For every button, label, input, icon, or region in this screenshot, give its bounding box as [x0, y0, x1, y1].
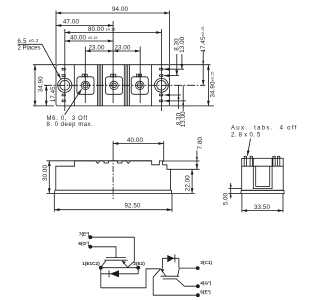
housing rib slots between terminals — [97, 65, 129, 106]
svg-text:7(E²): 7(E²) — [79, 232, 90, 237]
dimension 23.00 right — [113, 44, 140, 51]
dimension 5.00 end view — [222, 183, 241, 205]
svg-text:40.00: 40.00 — [70, 35, 86, 42]
svg-text:4(G¹): 4(G¹) — [200, 281, 211, 286]
svg-text:34.90: 34.90 — [37, 76, 44, 92]
end view body — [242, 158, 284, 190]
IGBT Q1 — [161, 268, 180, 279]
dimension 22.00 elevation — [172, 169, 195, 193]
elevation centerline — [112, 156, 114, 200]
dimension 94.00 — [56, 6, 170, 13]
dimension 13.00 top right — [179, 36, 186, 69]
terminal 7(E2) — [79, 232, 92, 240]
wire node1 loop to emitter of Q1 — [101, 269, 161, 288]
mounting hole left — [58, 78, 72, 92]
svg-text:7.80: 7.80 — [197, 137, 204, 150]
dimension 47.00 — [56, 19, 113, 26]
aux tabs plan view — [62, 68, 163, 101]
svg-text:3(C1): 3(C1) — [200, 260, 212, 265]
dimension 17.45 +-0.15 right — [200, 27, 207, 86]
svg-text:1(E1C2): 1(E1C2) — [82, 261, 100, 266]
svg-text:17.45±0.15: 17.45±0.15 — [200, 27, 207, 53]
dimension 33.50 end view — [242, 193, 283, 212]
svg-text:5(E¹): 5(E¹) — [200, 290, 211, 295]
dimension 80.00 +-0.15 — [65, 26, 162, 33]
svg-text:6(G²): 6(G²) — [78, 241, 89, 246]
svg-text:92.50: 92.50 — [125, 202, 141, 209]
node line 1(E1C2) to 2(E2) — [101, 267, 138, 269]
svg-text:23.00: 23.00 — [89, 44, 105, 51]
dimension 8.30 bottom right — [175, 85, 182, 125]
wire 7(E2) to emitter of Q2 — [90, 237, 134, 267]
svg-text:±0.15: ±0.15 — [106, 27, 115, 31]
terminal 2(E2) — [133, 261, 145, 270]
plan view horizontal centerline — [44, 84, 205, 86]
svg-text:13.00: 13.00 — [180, 111, 187, 127]
dimension 34.90 +-0.15 right — [208, 65, 216, 106]
svg-text:34.90±0.15: 34.90±0.15 — [210, 72, 217, 98]
svg-text:2. 8 x 0. 5: 2. 8 x 0. 5 — [231, 132, 261, 138]
note aux tabs with leader — [231, 125, 298, 155]
svg-text:5.00: 5.00 — [222, 192, 229, 205]
wire collector of Q1 to 3(C1) — [179, 267, 197, 269]
terminal 4(G1) — [196, 281, 212, 289]
plan view module outline — [56, 65, 170, 106]
svg-text:13.00: 13.00 — [179, 36, 186, 52]
svg-text:47.00: 47.00 — [63, 19, 79, 26]
note 6.5 2 places with leader — [18, 38, 61, 79]
dimension 23.00 left — [85, 44, 113, 51]
svg-text:Aux. tabs. 4 off: Aux. tabs. 4 off — [231, 125, 298, 131]
dimension 17.45 left — [46, 85, 57, 106]
svg-text:±0.15: ±0.15 — [88, 36, 97, 40]
end view aux tabs — [244, 156, 280, 166]
svg-text:80.00: 80.00 — [88, 26, 104, 33]
right side tab extension lines — [164, 65, 214, 106]
terminal 1(E1C2) — [82, 261, 102, 270]
svg-text:17.45: 17.45 — [50, 86, 57, 102]
svg-text:2(E2): 2(E2) — [133, 261, 145, 266]
IGBT Q2 — [101, 258, 128, 268]
wire emitter of Q1 to 5(E1) — [153, 269, 198, 295]
side elevation body — [54, 161, 171, 194]
dimension 92.50 elevation — [54, 193, 172, 211]
end view baseplate — [241, 190, 284, 193]
note M6.0 3 off with leader — [47, 89, 94, 128]
svg-text:23.00: 23.00 — [115, 44, 131, 51]
terminal 3(C1) — [196, 260, 213, 270]
dimension 8.30 top right — [174, 38, 181, 76]
terminal 5(E1) — [196, 290, 211, 298]
diode D1 — [162, 254, 179, 268]
wire gate of Q1 to 4(G1) — [176, 279, 198, 286]
hole centerlines / extension lines — [56, 11, 170, 112]
terminal pad 3 — [131, 74, 148, 94]
wire 6(G2) to gate of Q2 — [90, 247, 116, 258]
diode D2 — [101, 268, 138, 288]
dimension 40.00 +-0.15 — [65, 35, 113, 42]
end view terminal block — [253, 158, 272, 189]
dimension 30.00 elevation — [42, 161, 75, 194]
terminal pad 2 — [105, 74, 122, 94]
svg-text:6.5 ±0.3: 6.5 ±0.3 — [18, 38, 39, 45]
svg-text:94.00: 94.00 — [112, 6, 128, 13]
svg-text:22.00: 22.00 — [184, 175, 191, 191]
dimension 7.80 elevation — [164, 137, 205, 170]
dimension 34.90 left — [33, 65, 56, 106]
svg-text:30.00: 30.00 — [42, 165, 49, 181]
dimension 40.00 elevation — [113, 137, 164, 162]
terminal pad 1 — [77, 74, 94, 94]
svg-text:8. 0 deep max.: 8. 0 deep max. — [47, 122, 94, 128]
svg-text:33.50: 33.50 — [254, 204, 270, 211]
terminal 6(G2) — [78, 241, 92, 249]
dimension 13.00 bottom right — [180, 85, 187, 127]
svg-text:40.00: 40.00 — [127, 137, 143, 144]
mounting hole right — [155, 78, 169, 92]
svg-text:2 Places: 2 Places — [18, 46, 41, 52]
